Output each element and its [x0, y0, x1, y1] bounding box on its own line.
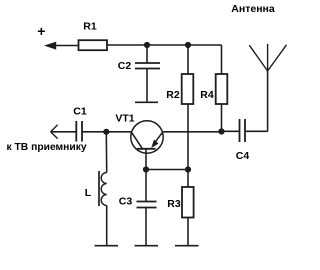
wire emitter row [146, 169, 188, 171]
capacitor C2 [135, 63, 160, 69]
wire R2 down across collector wire to emitter node [187, 104, 189, 170]
wire R3 to ground [187, 218, 189, 246]
transistor emitter diagonal with arrow [154, 132, 163, 144]
svg-text:C3: C3 [119, 196, 133, 208]
wire R2/R3 node down [187, 170, 189, 188]
wire C3 to ground [145, 208, 147, 246]
ground under C2 [135, 101, 158, 103]
wire C3 from base node [145, 170, 147, 202]
svg-text:+: + [37, 23, 45, 39]
svg-text:VT1: VT1 [115, 113, 134, 125]
capacitor C3 [137, 202, 157, 208]
wire rail corner down to R4 [221, 45, 223, 74]
capacitor C4 [240, 119, 246, 142]
capacitor C1 [76, 121, 82, 142]
svg-text:R2: R2 [166, 89, 180, 101]
wire arrow to R1 [54, 45, 78, 47]
wire C2 to ground stub [146, 69, 148, 103]
node junction R2/R3 [185, 166, 191, 172]
svg-text:C4: C4 [236, 150, 250, 162]
inductor L wire from base node [105, 132, 107, 173]
wire antenna to C4 [245, 130, 268, 132]
node junction C1/L/base [103, 129, 109, 135]
ground under R3 [175, 245, 199, 247]
wire base bar down [145, 149, 147, 170]
inductor L coil [101, 173, 107, 206]
output arrow (open chevron, to TV receiver) [51, 125, 58, 139]
wire R4 to output node [221, 104, 223, 132]
wire rail to R2 [187, 45, 189, 74]
svg-text:R1: R1 [83, 21, 97, 33]
resistor R1 [79, 40, 108, 50]
node junction C2/rail [144, 42, 150, 48]
node junction R2/rail [185, 42, 191, 48]
wire C4 to output node [222, 130, 240, 132]
resistor R4 [216, 74, 228, 104]
wire arrow to C1 [51, 131, 77, 133]
node junction base/C3 [143, 166, 149, 172]
transistor collector diagonal [132, 132, 143, 149]
inductor L core bar [98, 171, 100, 206]
wire top rail [107, 44, 222, 46]
svg-text:к ТВ приемнику: к ТВ приемнику [7, 142, 87, 153]
svg-text:C2: C2 [118, 60, 132, 72]
wire rail to C2 [146, 45, 148, 63]
wire collector to output node [163, 131, 221, 133]
transistor base bar [137, 148, 156, 150]
svg-text:C1: C1 [73, 106, 87, 118]
antenna symbol [249, 44, 286, 71]
ground under C3 [135, 245, 159, 247]
node junction R4/C4/collector [218, 128, 224, 134]
ground under L [95, 245, 119, 247]
wire antenna down [267, 71, 269, 131]
resistor R2 [182, 74, 194, 104]
wire C1 to base node [82, 131, 131, 133]
svg-text:R3: R3 [167, 198, 181, 210]
svg-text:R4: R4 [200, 89, 214, 101]
svg-text:L: L [85, 187, 92, 199]
resistor R3 [182, 187, 194, 218]
arrow to power (solid left arrow) [44, 42, 56, 50]
wire L to ground [106, 206, 108, 246]
svg-text:Антенна: Антенна [231, 3, 275, 15]
